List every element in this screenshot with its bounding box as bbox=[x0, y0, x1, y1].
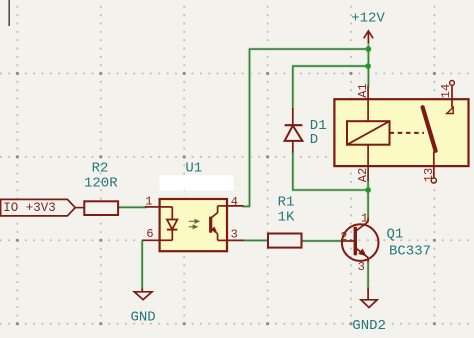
relay K1 body bbox=[334, 81, 468, 184]
relay pin A2 name bbox=[356, 168, 370, 182]
Q1 base pin bbox=[342, 240, 355, 242]
svg-text:3: 3 bbox=[231, 228, 238, 242]
relay pin 14 number bbox=[439, 84, 453, 98]
svg-text:1K: 1K bbox=[278, 209, 295, 225]
svg-text:1: 1 bbox=[145, 195, 152, 209]
svg-text:R1: R1 bbox=[278, 195, 295, 211]
svg-text:D: D bbox=[310, 132, 318, 148]
Q1 base bar bbox=[354, 227, 357, 256]
svg-text:1: 1 bbox=[361, 211, 368, 225]
wire Q1 emitter to GND2 bbox=[366, 262, 369, 289]
power symbol +12V bbox=[351, 10, 385, 45]
svg-text:Q1: Q1 bbox=[387, 226, 404, 242]
resistor R1 bbox=[268, 195, 302, 248]
svg-text:R2: R2 bbox=[92, 160, 109, 176]
U1 pin 1 bbox=[145, 206, 160, 208]
relay pin 13 number bbox=[422, 168, 436, 182]
resistor R2 bbox=[84, 160, 118, 215]
relay pin A1 name bbox=[356, 83, 370, 97]
junction at +12V / relay A1 / U1 pin4 bbox=[366, 46, 372, 52]
Q1 emitter bbox=[357, 249, 369, 258]
ground GND2 bbox=[352, 288, 386, 334]
relay pin A1 bbox=[367, 86, 369, 122]
relay actuation dashed link bbox=[390, 132, 425, 134]
svg-text:6: 6 bbox=[146, 227, 153, 241]
diode D1 bbox=[285, 108, 327, 153]
junction at +12V / D1 cathode bbox=[365, 63, 371, 69]
svg-text:120R: 120R bbox=[84, 176, 118, 192]
relay pin A2 bbox=[367, 145, 369, 181]
svg-text:+12V: +12V bbox=[351, 10, 385, 26]
svg-text:A2: A2 bbox=[356, 168, 370, 182]
relay pin 13 bbox=[433, 152, 435, 179]
wire U1 pin 6 to GND bbox=[140, 241, 143, 289]
U1 internal LED bbox=[160, 206, 173, 208]
junction at D1 anode / relay A2 / Q1 collector bbox=[365, 187, 371, 193]
wire R1 to Q1 base bbox=[302, 239, 343, 242]
svg-text:GND2: GND2 bbox=[352, 318, 386, 334]
relay switch lever bbox=[423, 107, 436, 151]
U1 pin 3 bbox=[227, 239, 243, 241]
wire relay pin A2 to junction bbox=[366, 181, 369, 191]
wire junction down to Q1 collector bbox=[366, 190, 369, 218]
relay coil bbox=[347, 121, 390, 145]
U1 value field (blanked white) bbox=[160, 175, 234, 190]
wire U1 pin 3 to R1 bbox=[243, 239, 268, 242]
U1 pin 6 bbox=[142, 239, 159, 241]
wire from +12V junction to U1 pin 4 bbox=[243, 49, 368, 206]
U1 pin 4 bbox=[227, 205, 243, 207]
svg-text:A1: A1 bbox=[356, 83, 370, 97]
global label IO +3V3 bbox=[1, 199, 85, 216]
U1 phototransistor bbox=[218, 205, 227, 207]
svg-text:BC337: BC337 bbox=[389, 244, 431, 260]
relay pin 14 bbox=[451, 85, 453, 107]
U1 LED emission arrows bbox=[189, 220, 199, 229]
svg-text:U1: U1 bbox=[185, 161, 202, 177]
svg-text:GND: GND bbox=[131, 310, 156, 326]
wire label to R2 bbox=[75, 207, 84, 209]
wire R2 to U1 pin 1 bbox=[118, 206, 146, 209]
wire +12V stem down to relay pin A1 bbox=[367, 45, 370, 86]
svg-text:13: 13 bbox=[422, 168, 436, 182]
Q1 collector bbox=[367, 218, 369, 222]
svg-text:3: 3 bbox=[358, 260, 365, 274]
svg-text:IO +3V3: IO +3V3 bbox=[3, 201, 56, 215]
ground GND bbox=[131, 289, 156, 326]
wire from +12V junction to D1 cathode bbox=[293, 66, 368, 108]
transistor Q1 bbox=[340, 211, 431, 273]
wire D1 anode to junction at Q1 collector net bbox=[293, 152, 368, 190]
svg-text:14: 14 bbox=[439, 84, 453, 98]
op-amp U1 (optocoupler) bbox=[142, 161, 243, 252]
svg-text:4: 4 bbox=[231, 195, 238, 209]
svg-text:2: 2 bbox=[340, 230, 347, 244]
relay fixed contact triangle bbox=[447, 107, 454, 113]
